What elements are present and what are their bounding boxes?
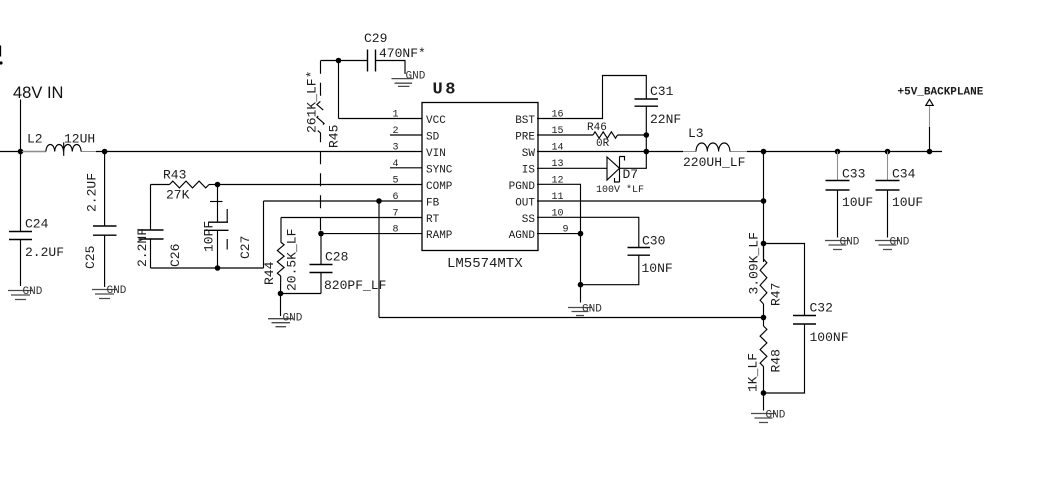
svg-text:GND: GND bbox=[582, 304, 602, 316]
svg-text:5: 5 bbox=[393, 175, 399, 186]
ground C29 bbox=[392, 71, 426, 87]
wire FB riser bbox=[263, 201, 265, 268]
wire R44 gnd lead bbox=[280, 294, 282, 317]
svg-text:7: 7 bbox=[393, 209, 399, 220]
svg-text:GND: GND bbox=[406, 71, 426, 83]
svg-text:220UH_LF: 220UH_LF bbox=[683, 155, 745, 170]
svg-text:AGND: AGND bbox=[509, 230, 536, 242]
svg-text:SYNC: SYNC bbox=[426, 164, 453, 176]
svg-text:48V IN: 48V IN bbox=[13, 84, 63, 102]
wire IS pin13 bbox=[537, 167, 607, 169]
capacitor C27 bbox=[202, 185, 254, 269]
node junction 48V/L2 bbox=[18, 149, 24, 155]
ground C25 bbox=[92, 285, 127, 299]
node junction R44/C28 bbox=[278, 291, 284, 297]
svg-text:D7: D7 bbox=[623, 167, 639, 182]
capacitor C34 bbox=[876, 152, 924, 238]
node +5V_BACKPLANE bbox=[898, 87, 984, 152]
resistor R43 bbox=[151, 168, 218, 203]
pin 4 bbox=[390, 159, 422, 170]
svg-text:FB: FB bbox=[426, 198, 440, 210]
svg-text:SW: SW bbox=[522, 148, 536, 160]
capacitor C28 bbox=[310, 234, 387, 294]
wire AGND pin9 bbox=[537, 233, 581, 235]
svg-text:GND: GND bbox=[890, 237, 910, 249]
svg-text:2: 2 bbox=[393, 126, 399, 137]
diode D7 bbox=[596, 157, 644, 197]
wire FB to pin6 bbox=[264, 200, 423, 202]
svg-text:GND: GND bbox=[840, 237, 860, 249]
resistor R47 bbox=[747, 232, 784, 317]
node junction R47 top bbox=[761, 241, 767, 247]
wire SS pin10 bbox=[537, 217, 639, 247]
resistor R45 (dashed optional) bbox=[305, 61, 342, 234]
resistor R48 bbox=[746, 318, 784, 394]
ground R48 bbox=[751, 410, 786, 423]
svg-text:2.2UF: 2.2UF bbox=[85, 173, 100, 212]
wire feedback bottom bbox=[379, 317, 764, 319]
svg-text:+5V_BACKPLANE: +5V_BACKPLANE bbox=[898, 87, 984, 99]
svg-text:261K_LF*: 261K_LF* bbox=[305, 71, 320, 133]
wire OUT drop bbox=[763, 152, 765, 263]
wire COMP to pin5 bbox=[218, 184, 423, 186]
svg-text:10PF: 10PF bbox=[202, 221, 217, 252]
svg-text:3.09K_LF: 3.09K_LF bbox=[747, 232, 762, 294]
svg-text:12UH: 12UH bbox=[64, 132, 95, 147]
svg-text:C25: C25 bbox=[83, 246, 98, 269]
ground C33 bbox=[825, 237, 860, 250]
node junction RAMP bbox=[318, 231, 324, 237]
svg-text:C27: C27 bbox=[238, 236, 253, 259]
ground PGND bbox=[568, 304, 602, 316]
node junction C33 bbox=[835, 149, 841, 155]
wire RAMP to pin8 bbox=[321, 233, 422, 235]
wire C31 to SW bbox=[620, 135, 646, 168]
svg-text:LM5574MTX: LM5574MTX bbox=[447, 256, 523, 272]
svg-text:IS: IS bbox=[522, 164, 536, 176]
wire bus left bbox=[0, 151, 46, 153]
svg-text:0R: 0R bbox=[596, 138, 610, 150]
svg-text:PRE: PRE bbox=[515, 132, 535, 144]
svg-text:C33: C33 bbox=[842, 167, 865, 182]
node junction AGND bbox=[578, 231, 584, 237]
op-amp U8 LM5574MTX bbox=[422, 81, 538, 273]
svg-text:8: 8 bbox=[393, 225, 399, 236]
wire SW pin14 bbox=[537, 151, 683, 153]
wire bus to VIN pin3 bbox=[96, 151, 422, 153]
node junction C27 bottom bbox=[215, 265, 221, 271]
wire PGND pin12 bbox=[537, 184, 581, 302]
svg-text:R45: R45 bbox=[327, 125, 342, 148]
capacitor C31 bbox=[635, 84, 682, 135]
svg-text:470NF*: 470NF* bbox=[379, 46, 426, 61]
svg-text:C26: C26 bbox=[168, 244, 183, 267]
wire FB drop bbox=[378, 201, 380, 318]
wire RT to pin7 bbox=[281, 217, 422, 219]
svg-text:COMP: COMP bbox=[426, 181, 453, 193]
node junction R48/C32 bbox=[761, 390, 767, 396]
svg-text:10UF: 10UF bbox=[892, 195, 923, 210]
wire R44 to C28 bbox=[281, 293, 322, 295]
wire R48 gnd lead bbox=[763, 393, 765, 411]
wire C26/C27 bottom to FB riser bbox=[151, 267, 264, 269]
wire VCC riser bbox=[338, 61, 340, 119]
svg-text:100V *LF: 100V *LF bbox=[596, 184, 644, 196]
wire C29 junction to R45 bbox=[321, 60, 339, 62]
svg-text:R44: R44 bbox=[262, 261, 277, 285]
node junction PRE/C31 bbox=[644, 132, 650, 138]
ground R44 bbox=[268, 313, 303, 327]
capacitor C33 bbox=[826, 152, 874, 238]
inductor L2 bbox=[22, 132, 96, 156]
svg-text:GND: GND bbox=[766, 410, 786, 422]
svg-text:R43: R43 bbox=[163, 168, 186, 183]
svg-text:3: 3 bbox=[393, 143, 399, 154]
svg-text:C28: C28 bbox=[325, 250, 348, 265]
capacitor C24 bbox=[9, 217, 64, 287]
svg-text:22NF: 22NF bbox=[650, 112, 681, 127]
node junction VCC/C29 bbox=[336, 58, 342, 64]
svg-text:C31: C31 bbox=[650, 84, 674, 99]
ground C34 bbox=[875, 237, 910, 250]
svg-text:1K_LF: 1K_LF bbox=[746, 353, 761, 392]
wire BST pin16 bbox=[537, 76, 646, 119]
resistor R46 bbox=[537, 122, 646, 150]
node junction C34 bbox=[885, 149, 891, 155]
resistor R44 bbox=[262, 218, 300, 294]
capacitor C29 bbox=[339, 31, 426, 74]
svg-text:SS: SS bbox=[522, 214, 536, 226]
svg-text:L3: L3 bbox=[688, 126, 704, 141]
svg-text:6: 6 bbox=[393, 192, 399, 203]
pin 2 bbox=[390, 126, 422, 137]
svg-text:C30: C30 bbox=[642, 234, 665, 249]
svg-text:OUT: OUT bbox=[515, 198, 535, 210]
node junction FB bbox=[376, 198, 382, 204]
node junction FB divider bbox=[761, 315, 767, 321]
node junction OUT bbox=[761, 198, 767, 204]
svg-text:PGND: PGND bbox=[509, 181, 536, 193]
svg-text:GND: GND bbox=[23, 286, 43, 298]
svg-text:U8: U8 bbox=[433, 81, 458, 100]
svg-text:C34: C34 bbox=[892, 167, 916, 182]
capacitor C26 bbox=[135, 185, 183, 269]
svg-text:RAMP: RAMP bbox=[426, 230, 453, 242]
svg-text:VCC: VCC bbox=[426, 115, 446, 127]
svg-text:RT: RT bbox=[426, 214, 440, 226]
edge mark top-left bbox=[0, 46, 3, 65]
wire output bus bbox=[747, 151, 942, 153]
svg-text:R46: R46 bbox=[587, 122, 607, 134]
svg-text:VIN: VIN bbox=[426, 148, 446, 160]
ground C24 bbox=[8, 286, 43, 300]
svg-text:R48: R48 bbox=[769, 349, 784, 372]
svg-text:2.2NF: 2.2NF bbox=[135, 228, 150, 267]
wire OUT pin11 bbox=[537, 200, 764, 202]
svg-text:100NF: 100NF bbox=[810, 330, 849, 345]
inductor L3 bbox=[683, 126, 747, 170]
svg-text:10NF: 10NF bbox=[642, 261, 673, 276]
svg-text:27K: 27K bbox=[166, 188, 190, 203]
capacitor C25 bbox=[83, 152, 117, 288]
wire VCC to pin1 bbox=[339, 118, 423, 120]
svg-text:GND: GND bbox=[107, 285, 127, 297]
svg-text:C24: C24 bbox=[25, 217, 49, 232]
node junction L2 out bbox=[102, 149, 108, 155]
svg-text:1: 1 bbox=[393, 110, 399, 121]
capacitor C30 bbox=[581, 234, 673, 285]
capacitor C32 bbox=[764, 244, 849, 394]
svg-text:2.2UF: 2.2UF bbox=[25, 245, 64, 260]
node junction R43/C27 bbox=[215, 182, 221, 188]
svg-text:20.5K_LF: 20.5K_LF bbox=[285, 229, 300, 291]
svg-text:10UF: 10UF bbox=[842, 195, 873, 210]
svg-text:R47: R47 bbox=[769, 283, 784, 306]
svg-text:C32: C32 bbox=[810, 301, 833, 316]
node junction out/R47 bbox=[761, 149, 767, 155]
svg-text:L2: L2 bbox=[27, 132, 43, 147]
svg-text:GND: GND bbox=[283, 313, 303, 325]
node junction SW bbox=[644, 149, 650, 155]
svg-text:C29: C29 bbox=[364, 31, 387, 46]
svg-text:820PF_LF: 820PF_LF bbox=[324, 278, 386, 293]
svg-text:BST: BST bbox=[515, 115, 535, 127]
node junction C30/PGND bbox=[578, 282, 584, 288]
node junction +5V bbox=[927, 149, 933, 155]
wire 48V input vertical bbox=[20, 100, 22, 232]
svg-text:SD: SD bbox=[426, 132, 440, 144]
svg-text:4: 4 bbox=[393, 159, 399, 170]
